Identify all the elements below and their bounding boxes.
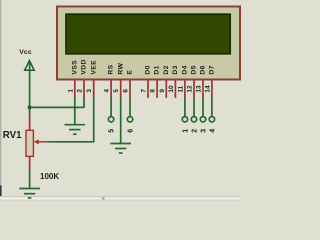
terminal circle on RS bbox=[108, 117, 113, 122]
terminal circle on E bbox=[127, 117, 132, 122]
pin 1 stub bbox=[74, 81, 76, 98]
pin 8 stub bbox=[156, 81, 158, 98]
svg-text:2: 2 bbox=[192, 129, 199, 133]
terminal circle on D7 bbox=[209, 117, 214, 122]
svg-text:D7: D7 bbox=[209, 65, 216, 74]
svg-text:1: 1 bbox=[182, 129, 189, 133]
svg-text:6: 6 bbox=[128, 129, 135, 133]
svg-text:11: 11 bbox=[177, 85, 184, 92]
pin 3 stub bbox=[93, 81, 95, 98]
wire D7 vertical to terminal bbox=[211, 98, 213, 117]
svg-text:D5: D5 bbox=[191, 65, 198, 74]
wire Vcc vertical rail bbox=[29, 62, 31, 115]
wire VSS to ground bbox=[74, 98, 76, 125]
wire E vertical to terminal bbox=[129, 98, 131, 117]
window bottom edge line bbox=[0, 196, 241, 197]
svg-text:VSS: VSS bbox=[71, 60, 78, 75]
svg-text:Vcc: Vcc bbox=[19, 49, 32, 56]
pin 9 stub bbox=[165, 81, 167, 98]
svg-text:D4: D4 bbox=[182, 65, 189, 74]
wire RS vertical to terminal bbox=[110, 98, 112, 117]
pin 6 stub bbox=[129, 81, 131, 98]
pin 11 stub bbox=[184, 81, 186, 98]
wire RV1 to bottom ground bbox=[29, 171, 31, 188]
wire D5 vertical to terminal bbox=[193, 98, 195, 117]
wire VEE to RV1 wiper horizontal bbox=[48, 141, 94, 143]
terminal circle on D6 bbox=[200, 117, 205, 122]
svg-text:D2: D2 bbox=[163, 65, 170, 74]
svg-text:1: 1 bbox=[67, 89, 74, 93]
svg-text:D3: D3 bbox=[172, 65, 179, 74]
LCD module LCD1 body bbox=[57, 7, 240, 80]
wire Vcc to VDD horizontal bbox=[30, 106, 84, 108]
potentiometer RV1 top pin bbox=[29, 115, 31, 131]
svg-text:9: 9 bbox=[159, 89, 166, 93]
svg-text:12: 12 bbox=[187, 85, 194, 93]
potentiometer RV1 bottom pin bbox=[29, 156, 31, 171]
potentiometer RV1 wiper tail bbox=[38, 141, 48, 143]
svg-text:4: 4 bbox=[209, 129, 216, 133]
wire D4 vertical to terminal bbox=[184, 98, 186, 117]
svg-text:3: 3 bbox=[86, 89, 93, 93]
pin 12 stub bbox=[193, 81, 195, 98]
window left edge dark segment bbox=[0, 186, 2, 197]
svg-text:VEE: VEE bbox=[90, 60, 97, 75]
svg-text:RW: RW bbox=[117, 62, 124, 74]
pin 7 stub bbox=[147, 81, 149, 98]
svg-text:5: 5 bbox=[109, 129, 116, 133]
svg-text:100K: 100K bbox=[40, 172, 59, 181]
ground under pin 1 bbox=[65, 125, 86, 135]
pin 5 stub bbox=[120, 81, 122, 98]
potentiometer RV1 wiper arrow bbox=[34, 139, 39, 144]
svg-text:6: 6 bbox=[123, 89, 130, 93]
ground below RV1 bbox=[19, 189, 40, 198]
LCD screen bbox=[66, 14, 230, 54]
svg-text:2: 2 bbox=[77, 89, 84, 93]
pin 4 stub bbox=[110, 81, 112, 98]
pin 14 stub bbox=[211, 81, 213, 98]
background sheet bbox=[0, 0, 241, 201]
svg-text:8: 8 bbox=[150, 89, 157, 93]
svg-text:RS: RS bbox=[108, 64, 115, 74]
svg-text:D0: D0 bbox=[145, 65, 152, 74]
svg-text:E: E bbox=[127, 70, 134, 75]
junction dot at Vcc branch bbox=[28, 105, 32, 109]
pin 2 stub bbox=[83, 81, 85, 98]
power terminal Vcc arrow bbox=[25, 61, 35, 71]
svg-text:3: 3 bbox=[201, 129, 208, 133]
window left edge bbox=[0, 0, 1, 201]
svg-text:13: 13 bbox=[196, 85, 203, 93]
window bottom strip bbox=[0, 197, 241, 199]
wire D6 vertical to terminal bbox=[202, 98, 204, 117]
wire VEE vertical bbox=[93, 98, 95, 142]
potentiometer RV1 body bbox=[26, 130, 33, 156]
window bottom lower strip bbox=[0, 200, 241, 201]
pin 10 stub bbox=[174, 81, 176, 98]
svg-text:7: 7 bbox=[141, 89, 148, 93]
pin 13 stub bbox=[202, 81, 204, 98]
bottom scrollbar dot bbox=[102, 197, 105, 199]
svg-text:10: 10 bbox=[168, 85, 175, 93]
svg-text:4: 4 bbox=[104, 89, 111, 93]
svg-text:RV1: RV1 bbox=[3, 130, 22, 141]
wire VDD vertical drop bbox=[83, 98, 85, 108]
svg-text:D1: D1 bbox=[154, 65, 161, 74]
terminal circle on D4 bbox=[182, 117, 187, 122]
svg-text:14: 14 bbox=[204, 85, 211, 93]
ground under pin 5 bbox=[110, 144, 131, 154]
svg-text:D6: D6 bbox=[200, 65, 207, 74]
wire RW to ground bbox=[120, 98, 122, 144]
svg-text:VDD: VDD bbox=[81, 59, 88, 74]
terminal circle on D5 bbox=[191, 117, 196, 122]
svg-text:5: 5 bbox=[113, 89, 120, 93]
